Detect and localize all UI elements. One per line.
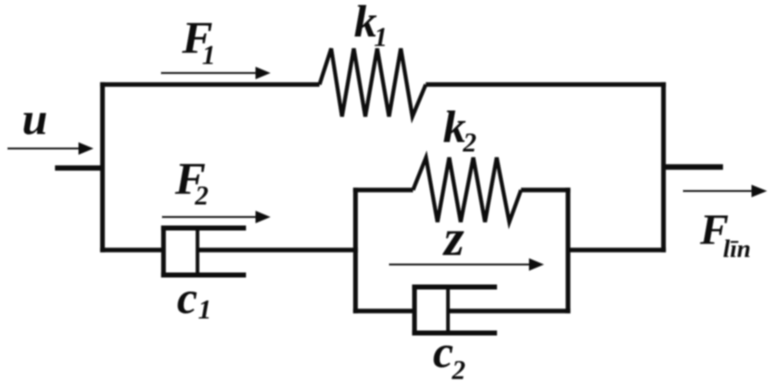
wire: output stub bbox=[664, 164, 724, 170]
svg-text:2: 2 bbox=[194, 181, 209, 211]
svg-text:1: 1 bbox=[198, 295, 212, 325]
svg-text:u: u bbox=[22, 93, 48, 144]
wire: top branch right segment bbox=[426, 82, 666, 87]
wire: damper c1 rod to box bbox=[198, 248, 358, 253]
spring k1 bbox=[320, 49, 426, 117]
damper c1 cylinder bbox=[161, 226, 246, 278]
svg-text:līn: līn bbox=[723, 236, 751, 263]
arrow u bbox=[8, 142, 94, 155]
arrow F1 bbox=[161, 67, 271, 80]
wire: box bottom edge left bbox=[353, 309, 414, 314]
wire: bottom branch left segment bbox=[100, 248, 163, 253]
spring k2 bbox=[413, 158, 521, 223]
wire: box exit to right vertical bbox=[568, 248, 666, 253]
svg-text:2: 2 bbox=[451, 355, 466, 382]
damper c2 cylinder bbox=[412, 285, 497, 336]
wire: input stub bbox=[55, 165, 104, 170]
svg-text:c: c bbox=[433, 326, 453, 377]
wire: box top edge left bbox=[353, 188, 413, 193]
arrow F2 bbox=[162, 211, 271, 224]
wire: box right wall bbox=[566, 188, 571, 314]
arrow F_lin bbox=[683, 185, 767, 198]
wire: right vertical node bar bbox=[661, 82, 666, 252]
wire: box left wall bbox=[353, 188, 358, 314]
svg-text:1: 1 bbox=[202, 40, 216, 70]
arrow z bbox=[389, 258, 544, 271]
svg-text:c: c bbox=[177, 272, 197, 323]
svg-text:z: z bbox=[442, 210, 465, 267]
svg-text:2: 2 bbox=[462, 128, 477, 158]
damper c2 piston bbox=[446, 285, 450, 335]
wire: left vertical node bar bbox=[100, 82, 105, 252]
wire: box top edge right bbox=[521, 188, 570, 193]
svg-text:1: 1 bbox=[374, 22, 388, 52]
wire: damper c2 rod to box right wall bbox=[448, 309, 570, 314]
damper c1 piston bbox=[196, 226, 200, 277]
wire: top branch left segment bbox=[100, 82, 319, 87]
